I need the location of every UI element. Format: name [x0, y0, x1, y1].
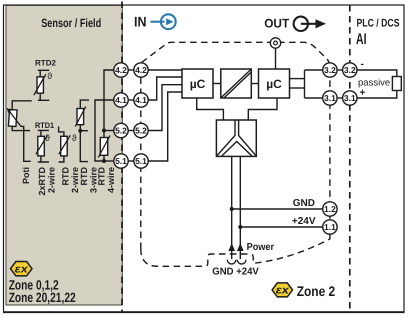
junction dot 24V	[238, 225, 242, 229]
svg-text:1.1: 1.1	[324, 222, 336, 232]
svg-text:4.1: 4.1	[135, 95, 147, 105]
svg-text:3.1: 3.1	[344, 93, 356, 103]
terminal 5.1 outer	[114, 154, 128, 168]
svg-text:GND: GND	[293, 198, 315, 209]
wire link 4.1 outer-inner	[127, 99, 135, 101]
svg-text:GND +24V: GND +24V	[212, 267, 259, 278]
svg-text:4-wire: 4-wire	[106, 167, 116, 193]
wire isolator to uC2	[251, 83, 258, 85]
wire link 3.2 inner-outer	[337, 69, 344, 71]
wire output bus vertical	[304, 70, 306, 98]
svg-text:Power: Power	[247, 242, 275, 253]
terminal 5.2 inner	[134, 123, 148, 137]
resistor bottom lead	[103, 155, 105, 161]
wire 5.1 to resistor bottom node	[104, 160, 114, 162]
svg-text:Sensor / Field: Sensor / Field	[41, 16, 101, 30]
wire +24V to terminal 1.1	[240, 226, 323, 228]
wire uC2 lower pin to bus	[290, 87, 305, 89]
wire 4.2 to uC1 pin1	[148, 69, 182, 71]
dashed separator PLC/DCS	[349, 5, 351, 312]
svg-text:RTD: RTD	[97, 167, 107, 186]
plug socket +24V	[237, 260, 246, 264]
wire GND rail vertical	[231, 156, 233, 259]
wire 5.2 to uC1 pin3	[148, 85, 182, 131]
junction dot 4-wire bottom	[102, 159, 106, 163]
svg-text:1.2: 1.2	[324, 204, 336, 214]
svg-text:+24V: +24V	[292, 216, 316, 227]
svg-text:AI: AI	[356, 31, 367, 48]
svg-text:4.2: 4.2	[115, 65, 127, 75]
wire GND to terminal 1.2	[232, 208, 323, 210]
terminal 4.1 outer	[114, 93, 128, 107]
IN arrow icon	[151, 14, 176, 29]
terminal 3.2 outer	[343, 63, 357, 77]
wire link 5.1 outer-inner	[127, 160, 135, 162]
svg-text:2-wire: 2-wire	[47, 167, 57, 193]
svg-text:ϑ: ϑ	[72, 133, 77, 143]
wire link 4.2 outer-inner	[127, 69, 135, 71]
svg-text:4.1: 4.1	[115, 95, 127, 105]
svg-text:εx: εx	[276, 285, 290, 297]
wire 5.1 to uC1 pin4	[148, 92, 182, 161]
plug socket GND	[227, 260, 236, 264]
terminal 5.1 inner	[134, 154, 148, 168]
poti wiper wire	[21, 126, 31, 161]
svg-text:µC: µC	[190, 77, 206, 91]
svg-text:εx: εx	[15, 263, 29, 275]
DC/DC converter block	[216, 120, 256, 156]
microcontroller U2	[259, 69, 290, 98]
svg-text:IN: IN	[134, 14, 147, 30]
poti bottom wire	[12, 126, 30, 130]
svg-text:3.1: 3.1	[324, 93, 336, 103]
svg-text:RTD1: RTD1	[35, 121, 55, 130]
wire 4.1 to uC1 pin2	[148, 77, 182, 100]
svg-text:RTD: RTD	[79, 167, 89, 186]
wire uC2 upper pin to bus	[290, 78, 305, 80]
RTD 4-wire resistor	[98, 136, 110, 158]
svg-text:Poti: Poti	[21, 167, 31, 184]
svg-text:3.2: 3.2	[324, 65, 336, 75]
RTD 2-wire resistor	[59, 127, 71, 163]
svg-text:-: -	[361, 59, 364, 70]
poti top wire	[12, 101, 32, 110]
svg-text:3.2: 3.2	[344, 65, 356, 75]
svg-text:passive: passive	[358, 78, 390, 89]
svg-text:Zone 2: Zone 2	[297, 283, 336, 299]
svg-text:Zone 20,21,22: Zone 20,21,22	[9, 290, 76, 305]
potentiometer P	[8, 109, 17, 126]
wire 5.2 to resistor top node	[104, 130, 114, 132]
RTD2 resistor	[34, 70, 50, 100]
wire 3.2 to load resistor	[357, 70, 397, 77]
wire uC1 to isolator	[213, 83, 221, 85]
wire load resistor to 3.1	[357, 91, 397, 99]
wire 4.2 to resistor top	[104, 70, 114, 138]
svg-text:5.1: 5.1	[115, 156, 127, 166]
junction dot GND	[230, 207, 234, 211]
RTD 4-wire wiring	[95, 70, 114, 161]
RTD1 resistor	[36, 130, 49, 162]
wire bus to terminal 3.1	[305, 97, 324, 99]
svg-text:RTD2: RTD2	[35, 59, 57, 68]
svg-text:5.1: 5.1	[135, 156, 147, 166]
terminal 1.1	[323, 220, 337, 234]
terminal 3.2 inner	[323, 63, 337, 77]
terminal 4.2 outer	[114, 63, 128, 77]
svg-text:µC: µC	[266, 77, 282, 91]
svg-text:2xRTD: 2xRTD	[37, 167, 47, 196]
isolation barrier block	[221, 69, 252, 98]
wire uC1 to DC/DC converter	[197, 98, 224, 120]
wire bus to terminal 3.2	[305, 69, 324, 71]
wire +24V rail vertical	[239, 156, 241, 259]
svg-text:OUT: OUT	[264, 16, 289, 30]
microcontroller U1	[182, 69, 213, 98]
svg-text:+: +	[360, 88, 366, 99]
power arrow +24V	[237, 243, 244, 251]
terminal 5.2 outer	[114, 123, 128, 137]
poti arrow	[10, 112, 22, 127]
junction dot 3-wire	[78, 129, 82, 133]
RTD 3-wire resistor	[75, 100, 89, 162]
OUT arrow icon	[294, 17, 317, 31]
wire link 3.1 inner-outer	[337, 97, 344, 99]
svg-text:4.2: 4.2	[135, 65, 147, 75]
terminal 4.2 inner	[134, 63, 148, 77]
wire link 5.2 outer-inner	[127, 130, 135, 132]
terminal 1.2	[323, 202, 337, 216]
svg-text:ϑ: ϑ	[47, 71, 52, 81]
terminal 3.1 outer	[343, 91, 357, 105]
power arrow GND	[228, 243, 235, 251]
Ex symbol right	[272, 283, 292, 297]
wire uC2 to DC/DC converter	[248, 98, 277, 120]
svg-text:PLC / DCS: PLC / DCS	[357, 17, 400, 29]
load resistor	[392, 77, 401, 91]
wire 4.1 down left side	[95, 100, 114, 161]
svg-text:ϑ: ϑ	[45, 133, 50, 143]
Ex symbol left	[11, 262, 33, 276]
sensor/field tan box	[6, 6, 122, 306]
terminal 4.1 inner	[134, 93, 148, 107]
output port symbol	[270, 38, 280, 69]
device dashed outline	[141, 42, 330, 266]
svg-text:5.2: 5.2	[135, 126, 147, 136]
rotated labels	[21, 167, 116, 196]
svg-text:5.2: 5.2	[115, 126, 127, 136]
svg-text:RTD: RTD	[61, 167, 71, 186]
junction dot 4-wire top	[102, 129, 106, 133]
dashed separator sensor/field	[121, 2, 123, 313]
terminal 3.1 inner	[323, 91, 337, 105]
